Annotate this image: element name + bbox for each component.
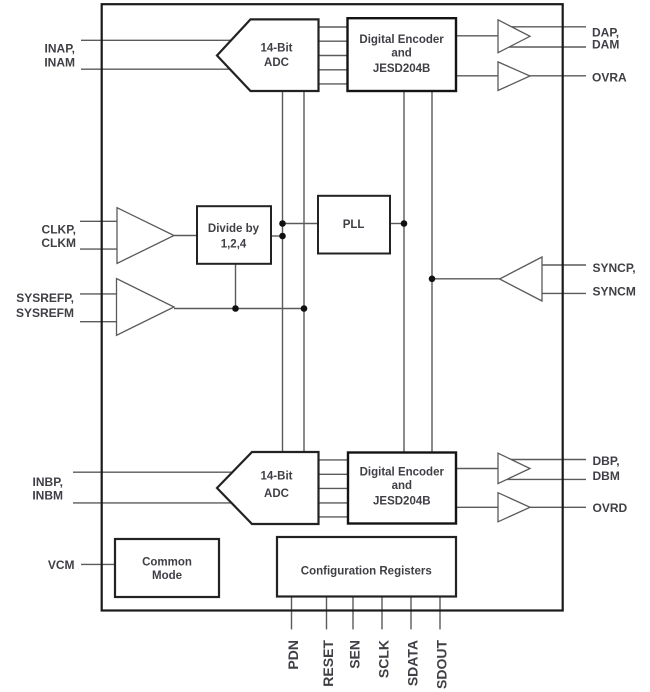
- wire encoder2 to buffer OVRD: [456, 506, 498, 508]
- wire sysref buffer output: [174, 308, 304, 310]
- wire bus ADC A to encoder 2: [317, 40, 349, 42]
- wire bus ADC A to encoder 1: [317, 26, 349, 28]
- ADC B block (14-Bit ADC): [217, 452, 319, 524]
- svg-text:Digital Encoder: Digital Encoder: [360, 467, 445, 479]
- svg-text:INAP,: INAP,: [45, 42, 75, 56]
- wire vertical sync line D: [431, 91, 433, 453]
- svg-text:OVRA: OVRA: [592, 70, 627, 84]
- wire pin SEN: [352, 597, 354, 630]
- wire bus ADC A to encoder 3: [317, 55, 349, 57]
- svg-text:SYNCM: SYNCM: [593, 285, 636, 299]
- digital encoder U2 (bottom): [348, 453, 456, 524]
- wire bus ADC A to encoder 5: [317, 83, 349, 85]
- wire CLKP: [80, 220, 117, 222]
- svg-text:JESD204B: JESD204B: [373, 63, 431, 75]
- wire bus ADC B to encoder 5: [317, 516, 349, 518]
- digital encoder U1 (top): [348, 18, 457, 91]
- sysref input buffer: [117, 279, 175, 336]
- wire OVRA output: [529, 75, 586, 77]
- wire INAM: [81, 68, 245, 70]
- configuration registers block: [277, 537, 456, 597]
- svg-text:CLKP,: CLKP,: [42, 223, 76, 237]
- wire DBP output: [505, 459, 586, 461]
- PLL block: [318, 196, 390, 254]
- wire bus ADC A to encoder 4: [317, 69, 349, 71]
- junction dot PLL input tap: [279, 220, 286, 227]
- wire encoder2 to buffer DB: [456, 468, 498, 470]
- wire SYSREFM: [80, 321, 117, 323]
- wire DBM output: [505, 478, 586, 480]
- wire bus ADC B to encoder 2: [317, 473, 349, 475]
- wire CLKM: [80, 248, 117, 250]
- wire bus ADC B to encoder 4: [317, 502, 349, 504]
- wire pin PDN: [291, 597, 293, 630]
- junction dot sync line D: [429, 276, 436, 283]
- wire vertical sysref line B: [303, 91, 305, 453]
- svg-text:14-Bit: 14-Bit: [261, 471, 293, 483]
- svg-text:SEN: SEN: [347, 640, 363, 669]
- clock input buffer: [117, 208, 174, 264]
- wire INBP: [73, 471, 245, 473]
- output buffer DA: [498, 20, 530, 53]
- svg-text:ADC: ADC: [264, 488, 289, 500]
- svg-text:1,2,4: 1,2,4: [221, 239, 247, 251]
- svg-text:OVRD: OVRD: [593, 501, 628, 515]
- wire pin RESET: [326, 597, 328, 630]
- wire SYSREFP: [80, 293, 117, 295]
- svg-text:Configuration Registers: Configuration Registers: [301, 566, 432, 578]
- svg-text:Common: Common: [142, 557, 192, 569]
- output buffer OVRA: [498, 62, 530, 91]
- svg-text:SYNCP,: SYNCP,: [593, 261, 636, 275]
- common mode block: [115, 539, 219, 597]
- svg-text:INBM: INBM: [32, 489, 63, 503]
- wire SYNCM: [542, 292, 586, 294]
- wire OVRD output: [529, 506, 586, 508]
- wire SYNCP: [542, 264, 586, 266]
- svg-text:PDN: PDN: [285, 640, 301, 670]
- ADC A block (14-Bit ADC): [217, 19, 319, 91]
- junction dot divider output: [279, 233, 286, 240]
- svg-text:SYSREFP,: SYSREFP,: [16, 291, 74, 305]
- svg-text:Divide by: Divide by: [208, 223, 260, 235]
- svg-text:RESET: RESET: [320, 640, 336, 687]
- sync input buffer: [500, 257, 542, 301]
- divider block (Divide by 1,2,4): [197, 206, 271, 264]
- chip outer border: [102, 4, 563, 610]
- svg-text:Digital Encoder: Digital Encoder: [359, 34, 444, 46]
- svg-text:SCLK: SCLK: [376, 640, 392, 678]
- wire bus ADC B to encoder 1: [317, 459, 349, 461]
- wire pin SCLK: [381, 597, 383, 630]
- svg-text:CLKM: CLKM: [41, 236, 76, 250]
- svg-text:VCM: VCM: [48, 558, 75, 572]
- svg-text:JESD204B: JESD204B: [373, 496, 431, 508]
- svg-text:DBM: DBM: [593, 469, 620, 483]
- wire VCM: [81, 563, 115, 565]
- wire divider sysref stub: [235, 264, 237, 309]
- svg-text:and: and: [392, 480, 412, 492]
- svg-text:DAM: DAM: [592, 38, 619, 52]
- svg-text:and: and: [391, 47, 411, 59]
- wire bus ADC B to encoder 3: [317, 487, 349, 489]
- wire clock buffer to divider: [174, 235, 197, 237]
- svg-text:SDOUT: SDOUT: [434, 640, 450, 689]
- svg-text:INBP,: INBP,: [33, 475, 63, 489]
- svg-text:DBP,: DBP,: [593, 454, 620, 468]
- wire PLL input: [283, 223, 319, 225]
- output buffer OVRD: [498, 493, 530, 522]
- wire vertical clock line A: [282, 91, 284, 453]
- svg-text:PLL: PLL: [343, 219, 365, 231]
- svg-text:Mode: Mode: [152, 570, 182, 582]
- svg-text:SDATA: SDATA: [405, 640, 421, 686]
- wire vertical PLL line C: [403, 91, 405, 453]
- wire pin SDATA: [410, 597, 412, 630]
- wire divider output: [271, 235, 283, 237]
- svg-text:SYSREFM: SYSREFM: [16, 306, 74, 320]
- wire INAP: [81, 39, 245, 41]
- wire pin SDOUT: [439, 597, 441, 630]
- wire DAP output: [505, 26, 586, 28]
- svg-text:14-Bit: 14-Bit: [261, 42, 293, 54]
- svg-text:INAM: INAM: [44, 55, 75, 69]
- wire sync buffer output: [432, 278, 500, 280]
- wire DAM output: [505, 46, 586, 48]
- junction dot divider sysref stub: [232, 305, 239, 312]
- wire PLL output: [390, 223, 404, 225]
- wire INBM: [73, 502, 245, 504]
- output buffer DB: [498, 453, 530, 483]
- junction dot PLL output: [401, 220, 408, 227]
- svg-text:ADC: ADC: [264, 57, 289, 69]
- wire encoder1 to buffer OVRA: [456, 75, 498, 77]
- wire encoder1 to buffer DA: [456, 35, 498, 37]
- junction dot sysref line B: [301, 305, 308, 312]
